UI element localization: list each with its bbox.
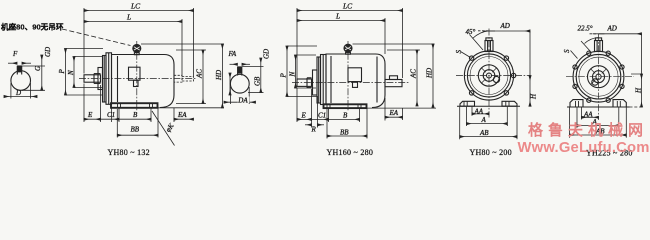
svg-text:H: H bbox=[530, 93, 538, 100]
fan cover outer circle D4 bbox=[573, 51, 624, 102]
dim EA D2 bbox=[385, 116, 403, 118]
dim GB vertical bbox=[260, 58, 262, 93]
shaft end view D1: circle bbox=[4, 47, 52, 99]
svg-text:EA: EA bbox=[389, 109, 399, 117]
transverse centerline bbox=[136, 41, 138, 111]
dim H D3 bbox=[529, 31, 531, 76]
svg-text:D: D bbox=[15, 89, 21, 97]
foot hole marks bbox=[117, 103, 119, 108]
dim D (shaft dia) bbox=[10, 83, 12, 99]
svg-text:L: L bbox=[126, 13, 131, 22]
hub spokes D4 bbox=[591, 69, 596, 74]
dim 45deg D3 bbox=[470, 35, 484, 51]
svg-text:YH80 ~ 132: YH80 ~ 132 bbox=[108, 148, 150, 157]
rim clip 135 D3 bbox=[469, 56, 473, 60]
svg-text:AC: AC bbox=[410, 69, 418, 79]
dim C1 D2 bbox=[312, 118, 329, 120]
svg-text:E: E bbox=[301, 111, 307, 119]
rim clip 292.5 D4 bbox=[606, 98, 610, 102]
svg-text:P: P bbox=[280, 73, 288, 79]
svg-text:GB: GB bbox=[254, 76, 262, 86]
eyebolt top extension bbox=[141, 43, 224, 45]
hub circles D3 bbox=[478, 65, 499, 86]
svg-text:R: R bbox=[311, 125, 317, 133]
dim AA D4 bbox=[582, 116, 599, 118]
shaft bbox=[84, 75, 101, 82]
dim C1 bbox=[101, 118, 120, 120]
svg-text:N: N bbox=[67, 70, 75, 76]
grease hole D4 bbox=[592, 79, 598, 85]
shaft D2 bbox=[297, 79, 312, 86]
rim clip 0 D3 bbox=[511, 73, 515, 77]
svg-text:GD: GD bbox=[44, 47, 52, 57]
svg-text:HD: HD bbox=[215, 70, 223, 81]
rim clip 22.5 D4 bbox=[620, 65, 624, 69]
svg-text:GD: GD bbox=[262, 49, 270, 59]
svg-text:L: L bbox=[335, 12, 340, 21]
shaft end view D2: circle bbox=[224, 49, 270, 105]
svg-text:AA: AA bbox=[583, 110, 593, 118]
svg-text:P: P bbox=[58, 69, 66, 75]
dim B D2 bbox=[329, 118, 360, 120]
dim AA D3 bbox=[472, 113, 489, 115]
centerlines D4 bbox=[566, 76, 634, 78]
extension lines top bbox=[83, 8, 85, 74]
extension lines top D2 bbox=[296, 8, 298, 79]
rim clip 45 D3 bbox=[504, 56, 508, 60]
svg-text:22.5°: 22.5° bbox=[578, 24, 593, 32]
dim H D4 bbox=[641, 34, 643, 74]
dim HD bbox=[221, 44, 223, 108]
dim AB D3 bbox=[460, 136, 517, 138]
eyebolt stub top D3 bbox=[485, 41, 493, 52]
dim G vertical line bbox=[41, 55, 43, 90]
dim BB D2 bbox=[327, 135, 367, 137]
dim B bbox=[119, 118, 151, 120]
baseline D3 bbox=[457, 105, 520, 107]
rim clip 247.5 D4 bbox=[587, 98, 591, 102]
feet plate bbox=[111, 103, 158, 108]
fan cover outer circle D3 bbox=[464, 51, 513, 100]
dim A D4 bbox=[577, 125, 619, 127]
dim LC bbox=[84, 10, 194, 12]
eyebolt stub top D4 bbox=[595, 41, 603, 52]
svg-text:FA: FA bbox=[228, 50, 237, 58]
bearing cap bbox=[98, 68, 103, 90]
svg-text:C1: C1 bbox=[107, 111, 115, 119]
baseline ext dashed D4 bbox=[630, 106, 643, 108]
left vertical dim D2 bbox=[229, 73, 231, 95]
svg-text:C1: C1 bbox=[318, 111, 326, 119]
dim AC bbox=[202, 50, 204, 104]
motor 4 dimensions bbox=[563, 24, 643, 137]
bottom dim row: verticals bbox=[83, 84, 85, 123]
dim E bbox=[84, 118, 101, 120]
note: frame 80/90 no lifting eye annotation bbox=[1, 22, 131, 46]
svg-text:B: B bbox=[133, 111, 138, 119]
dim P bbox=[65, 49, 67, 96]
hub spokes D3 bbox=[481, 68, 485, 72]
svg-text:S: S bbox=[455, 50, 463, 54]
right foot D4 bbox=[613, 100, 626, 107]
right foot D3 bbox=[502, 101, 517, 106]
motor 4 end view YH225~280 bbox=[566, 34, 642, 121]
hub circles D4 bbox=[588, 66, 610, 88]
dim N D2 bbox=[295, 55, 297, 88]
svg-text:AA: AA bbox=[474, 107, 484, 115]
motor 1 side view bbox=[79, 41, 224, 111]
dim A D3 bbox=[467, 123, 508, 125]
nameplate / terminal box on frame bbox=[129, 67, 141, 80]
leader S D4 bbox=[571, 51, 578, 59]
ground baseline extension D2 bbox=[367, 107, 437, 109]
svg-text:LC: LC bbox=[130, 2, 141, 11]
svg-text:AB: AB bbox=[479, 129, 489, 137]
svg-text:H: H bbox=[635, 87, 643, 94]
eyebolt top extension D2 bbox=[353, 43, 435, 45]
end shield plates D2 bbox=[317, 57, 321, 103]
grease hole D3 bbox=[493, 76, 499, 82]
centerlines D3 bbox=[456, 75, 530, 77]
svg-text:HD: HD bbox=[426, 68, 434, 79]
rim clip 225 D3 bbox=[469, 91, 473, 95]
foot hole marks D2 bbox=[326, 104, 328, 109]
dim L bbox=[84, 21, 182, 23]
svg-text:S: S bbox=[563, 49, 571, 53]
lifting eyebolt bbox=[133, 44, 141, 52]
ground baseline extension bbox=[158, 107, 225, 109]
rim clip 67.5 D4 bbox=[606, 51, 610, 55]
svg-text:N: N bbox=[289, 72, 297, 78]
svg-text:格鲁夫机械网: 格鲁夫机械网 bbox=[528, 121, 648, 139]
left foot D4 bbox=[570, 100, 583, 107]
dim LC D2 bbox=[297, 10, 403, 12]
svg-text:DA: DA bbox=[237, 97, 248, 105]
svg-text:EA: EA bbox=[177, 111, 187, 119]
rim clip 337.5 D4 bbox=[620, 84, 624, 88]
frame body outline D2 bbox=[326, 54, 385, 108]
svg-text:BB: BB bbox=[340, 128, 349, 136]
nameplate D2 bbox=[348, 68, 362, 82]
rear shaft stub D2 bbox=[385, 80, 402, 87]
dim DA bbox=[229, 87, 231, 104]
motor 3 dimensions bbox=[455, 22, 538, 140]
transverse centerline D2 bbox=[347, 41, 349, 111]
svg-text:BB: BB bbox=[131, 126, 140, 134]
leader 4-K foot holes bbox=[152, 111, 175, 146]
dim AD D3 bbox=[483, 30, 495, 32]
end shield plates bbox=[103, 56, 107, 103]
svg-text:F: F bbox=[12, 50, 18, 58]
bottom verticals D2 bbox=[296, 88, 298, 123]
svg-text:YH160 ~ 280: YH160 ~ 280 bbox=[327, 148, 374, 157]
baseline D4 bbox=[567, 106, 630, 108]
left foot D3 bbox=[460, 101, 475, 106]
svg-text:Www.GeLufu.Com: Www.GeLufu.Com bbox=[518, 140, 650, 156]
svg-text:YH80 ~ 200: YH80 ~ 200 bbox=[470, 148, 512, 157]
inner rim circle D4 bbox=[576, 54, 621, 99]
keyway key D2 bbox=[238, 67, 242, 74]
rim clip 202.5 D4 bbox=[573, 84, 577, 88]
axis centerline D2 bbox=[292, 82, 410, 84]
svg-text:E: E bbox=[87, 111, 93, 119]
svg-text:机座80、90无吊环: 机座80、90无吊环 bbox=[1, 22, 64, 32]
bottom verticals D3 bbox=[459, 107, 461, 140]
dim L D2 bbox=[297, 20, 385, 22]
dim AD D4 bbox=[593, 33, 605, 35]
motor 1 dimensions bbox=[58, 2, 224, 146]
lifting eyebolt D2 bbox=[344, 44, 352, 52]
inner rim circle D3 bbox=[467, 54, 510, 97]
dim HD D2 bbox=[432, 44, 434, 108]
svg-text:LC: LC bbox=[342, 2, 353, 11]
motor 2 dimensions bbox=[280, 2, 435, 139]
svg-text:AD: AD bbox=[500, 22, 510, 30]
svg-text:A: A bbox=[481, 116, 487, 124]
rim clip 315 D3 bbox=[504, 91, 508, 95]
rim clip 157.5 D4 bbox=[573, 65, 577, 69]
svg-text:AC: AC bbox=[196, 69, 204, 79]
dim AC D2 bbox=[416, 50, 418, 106]
dim F (key width) bbox=[8, 62, 17, 64]
dim BB bbox=[117, 134, 158, 136]
dim R D2 bbox=[305, 124, 312, 126]
motor 2 side view bbox=[292, 41, 436, 111]
dim AB D4 bbox=[570, 134, 627, 136]
motor 3 end view YH80~200 bbox=[456, 29, 530, 118]
frame body outline bbox=[112, 55, 175, 108]
dim P D2 bbox=[286, 46, 288, 97]
rim clip 112.5 D4 bbox=[587, 51, 591, 55]
dim E D2 bbox=[297, 118, 312, 120]
dim 22.5deg D4 bbox=[581, 41, 591, 52]
dim N bbox=[73, 57, 75, 88]
svg-text:45°: 45° bbox=[466, 28, 476, 36]
feet plate D2 bbox=[324, 104, 367, 108]
bearing cap D2 bbox=[313, 70, 318, 95]
keyway key D1 bbox=[17, 66, 21, 72]
leader S D3 bbox=[461, 52, 471, 58]
dim EA bbox=[174, 118, 194, 120]
rear shaft stub bbox=[174, 75, 182, 82]
axis centerline bbox=[79, 78, 197, 80]
bottom verticals D4 bbox=[569, 108, 571, 138]
svg-text:AD: AD bbox=[607, 24, 617, 32]
svg-text:B: B bbox=[343, 111, 348, 119]
dim FA bbox=[230, 63, 238, 65]
svg-text:G: G bbox=[34, 66, 42, 71]
